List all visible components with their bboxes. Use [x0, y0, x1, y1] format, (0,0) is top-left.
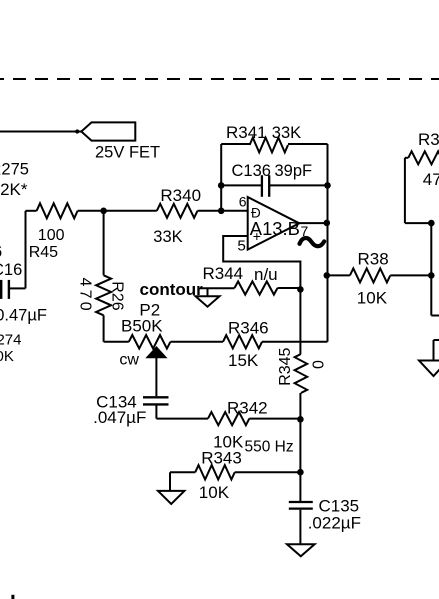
svg-text:R345: R345 [277, 347, 294, 385]
svg-text:5: 5 [237, 238, 245, 255]
svg-text:33K: 33K [153, 228, 182, 246]
svg-text:10K: 10K [199, 483, 230, 502]
svg-text:R343: R343 [201, 448, 242, 467]
svg-text:10K: 10K [357, 289, 388, 308]
svg-text:R342: R342 [227, 399, 268, 418]
svg-text:C16: C16 [0, 261, 22, 279]
svg-text:+: + [253, 228, 261, 244]
svg-text:n/u: n/u [254, 265, 278, 284]
svg-text:6: 6 [0, 243, 2, 261]
svg-text:R347: R347 [418, 130, 439, 149]
svg-text:R274: R274 [0, 331, 21, 348]
svg-text:47K: 47K [423, 170, 439, 189]
svg-text:R275: R275 [0, 161, 29, 179]
svg-text:R344: R344 [203, 264, 244, 283]
svg-text:100: 100 [38, 227, 65, 244]
svg-text:10K: 10K [0, 348, 14, 365]
svg-text:R26: R26 [108, 281, 125, 310]
svg-text:R341: R341 [226, 123, 267, 142]
svg-text:33K: 33K [272, 124, 301, 142]
svg-text:contour: contour [140, 280, 204, 299]
svg-text:R38: R38 [358, 250, 389, 269]
svg-text:cw: cw [119, 351, 139, 368]
svg-text:25V FET: 25V FET [95, 144, 160, 162]
svg-text:C136: C136 [232, 162, 271, 180]
svg-text:0: 0 [311, 360, 328, 369]
svg-text:39pF: 39pF [275, 162, 313, 180]
svg-text:470: 470 [77, 278, 94, 314]
svg-text:B50K: B50K [121, 317, 163, 336]
svg-text:.047µF: .047µF [93, 408, 146, 427]
svg-text:6: 6 [239, 193, 247, 209]
svg-text:.022µF: .022µF [308, 514, 361, 533]
svg-text:R346: R346 [228, 319, 269, 338]
svg-text:12K*: 12K* [0, 180, 28, 199]
svg-text:R45: R45 [29, 244, 58, 261]
svg-text:R340: R340 [160, 186, 201, 205]
svg-text:0.47µF: 0.47µF [0, 307, 47, 325]
svg-text:550 Hz: 550 Hz [245, 439, 294, 456]
svg-text:15K: 15K [228, 351, 259, 370]
